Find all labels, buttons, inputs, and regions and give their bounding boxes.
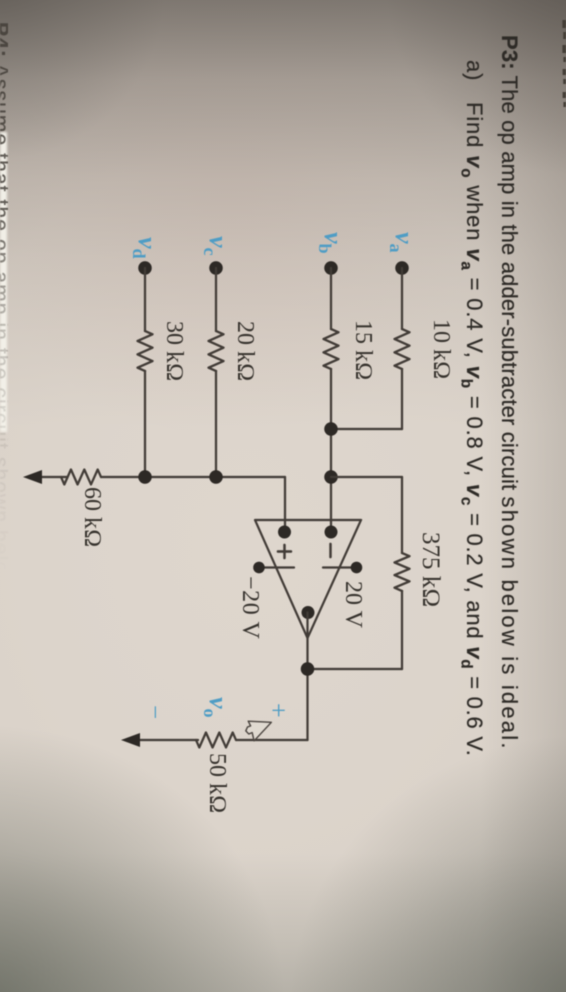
title line bbox=[496, 35, 522, 751]
label 50 kOhm bbox=[203, 753, 230, 813]
resistor 15 kOhm bbox=[324, 329, 339, 369]
wire feedback top right segment bbox=[401, 591, 403, 669]
wire 30k to noninverting bus bbox=[144, 371, 146, 477]
wire va dot to resistor 10k bbox=[401, 268, 403, 329]
op-amp inverting input dot bbox=[325, 526, 338, 539]
clipped next problem line P4 at page bottom bbox=[0, 0, 8, 992]
positive supply terminal dot bbox=[351, 562, 363, 574]
label 10 kOhm bbox=[427, 319, 454, 379]
node vd terminal dot bbox=[138, 261, 152, 275]
label vo bbox=[199, 697, 233, 718]
subtitle line a) bbox=[457, 60, 487, 757]
label minus polarity vo bbox=[140, 705, 168, 719]
label -20 V bbox=[236, 576, 263, 639]
resistor 30 kOhm bbox=[138, 331, 153, 371]
label 20 V bbox=[339, 581, 366, 628]
label vb bbox=[314, 232, 348, 254]
op-amp noninverting input dot bbox=[278, 526, 291, 539]
junction dot output node bbox=[301, 662, 315, 676]
plus sign noninverting input bbox=[278, 545, 291, 558]
op-amp triangle bbox=[255, 520, 361, 638]
label 20 kOhm bbox=[231, 321, 258, 381]
junction dot vc on bus bbox=[209, 470, 223, 484]
wire 10k to corner bbox=[401, 369, 403, 429]
label 15 kOhm bbox=[349, 320, 376, 380]
negative supply lead bbox=[259, 566, 294, 568]
wire op-amp output bbox=[306, 613, 308, 741]
wire vc dot to resistor 20k bbox=[215, 268, 217, 331]
wire feedback top left segment bbox=[401, 477, 403, 553]
wire 20k to noninverting bus bbox=[215, 371, 217, 477]
node va terminal dot bbox=[395, 261, 409, 275]
label 30 kOhm bbox=[160, 321, 187, 381]
ground arrow of 60k bbox=[23, 470, 42, 484]
wire va riser down to inverting bus bbox=[331, 428, 402, 430]
junction dot feedback tap on inverting row bbox=[324, 470, 338, 484]
resistor 375 kOhm bbox=[395, 553, 410, 591]
negative supply terminal dot bbox=[253, 562, 265, 574]
label plus polarity vo bbox=[263, 703, 293, 718]
label vd bbox=[128, 237, 162, 259]
wire inverting row to op-amp minus input bbox=[330, 369, 332, 532]
wire vd dot to resistor 30k bbox=[144, 268, 146, 331]
resistor 60 kOhm bbox=[61, 470, 101, 485]
label vc bbox=[199, 236, 233, 256]
junction dot vd on bus bbox=[138, 470, 152, 484]
resistor 50 kOhm bbox=[196, 733, 236, 748]
minus sign inverting input bbox=[329, 544, 332, 557]
mouse cursor bbox=[246, 721, 272, 741]
label va bbox=[385, 232, 419, 253]
node vc terminal dot bbox=[209, 261, 223, 275]
node vb terminal dot bbox=[324, 261, 338, 275]
wire 50k to ground arrow bbox=[140, 739, 198, 741]
label 60 kOhm bbox=[78, 487, 105, 547]
wire vb dot to resistor 15k bbox=[330, 268, 332, 329]
op-amp output dot at apex bbox=[302, 606, 315, 619]
resistor 10 kOhm bbox=[395, 329, 410, 369]
wire output down to 50k bbox=[236, 739, 308, 741]
wire noninverting bus vertical bbox=[101, 476, 285, 478]
wire feedback riser bbox=[331, 476, 402, 478]
wire 60k to ground arrow bbox=[40, 476, 67, 478]
wire noninverting bus to op-amp plus input bbox=[284, 477, 286, 532]
positive supply lead bbox=[323, 566, 356, 568]
page top edge letter fragments bbox=[562, 20, 566, 107]
wire feedback down to output node bbox=[308, 668, 403, 670]
label 375 kOhm bbox=[416, 532, 444, 607]
resistor 20 kOhm bbox=[209, 331, 224, 371]
ground arrow of 50k bbox=[121, 733, 140, 747]
junction dot va joins vb row bbox=[324, 422, 338, 436]
